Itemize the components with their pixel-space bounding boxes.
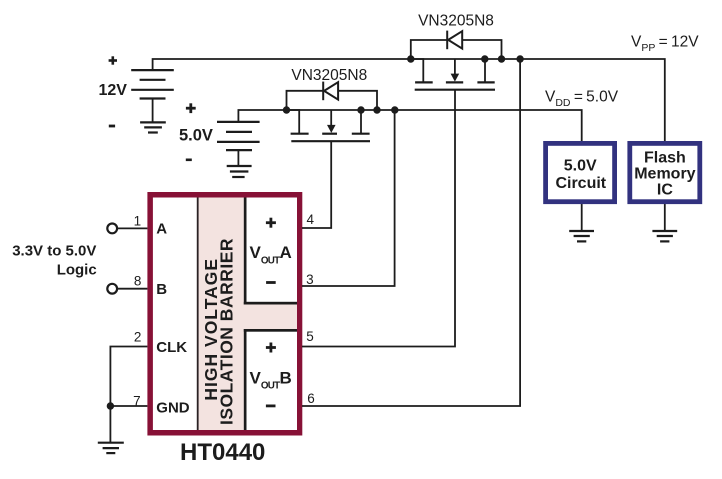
svg-text:VN3205N8: VN3205N8 <box>291 67 367 84</box>
svg-text:Memory: Memory <box>634 165 695 182</box>
svg-text:8: 8 <box>134 274 142 289</box>
svg-text:B: B <box>156 281 167 298</box>
svg-text:7: 7 <box>133 393 141 408</box>
svg-text:Circuit: Circuit <box>555 175 606 192</box>
svg-text:12V: 12V <box>99 82 128 99</box>
svg-text:HT0440: HT0440 <box>180 439 265 466</box>
svg-text:4: 4 <box>307 212 315 227</box>
svg-text:ISOLATION BARRIER: ISOLATION BARRIER <box>217 238 237 425</box>
svg-text:1: 1 <box>134 214 142 229</box>
svg-text:Flash: Flash <box>644 149 686 166</box>
svg-text:5.0V: 5.0V <box>179 127 213 145</box>
svg-text:6: 6 <box>307 391 315 406</box>
svg-text:VN3205N8: VN3205N8 <box>418 12 494 29</box>
svg-text:3.3V to 5.0V: 3.3V to 5.0V <box>12 243 96 260</box>
svg-text:CLK: CLK <box>156 339 187 356</box>
svg-text:5.0V: 5.0V <box>564 157 597 174</box>
svg-text:A: A <box>156 221 167 238</box>
svg-text:5: 5 <box>306 329 314 344</box>
svg-text:Logic: Logic <box>57 261 97 278</box>
svg-text:3: 3 <box>306 272 314 287</box>
svg-text:IC: IC <box>657 182 673 199</box>
svg-text:2: 2 <box>134 330 142 345</box>
svg-text:GND: GND <box>156 400 190 417</box>
